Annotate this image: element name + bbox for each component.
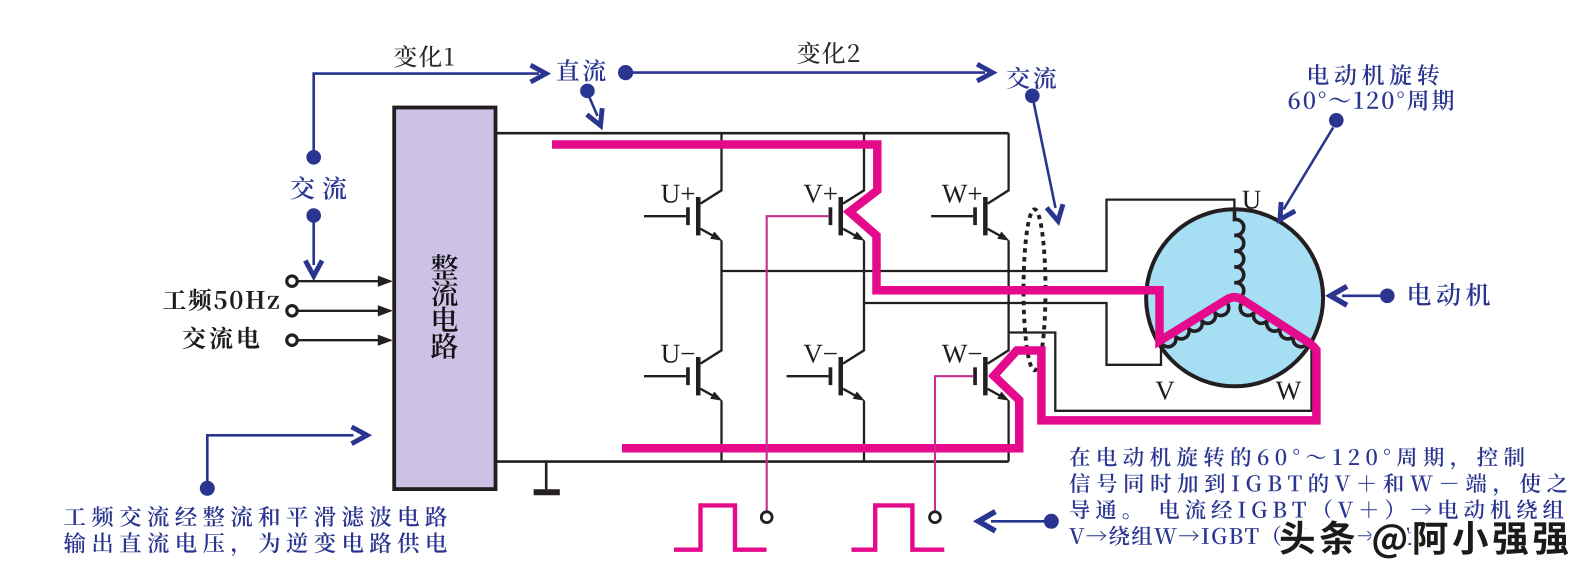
wire: short arrow from 直流 node to DC bus bbox=[590, 98, 598, 117]
wire: V branch vertical bbox=[863, 133, 865, 190]
node dot after 直流 bbox=[618, 65, 633, 80]
node dot below 交流 left bbox=[306, 208, 321, 223]
label 变化1 bbox=[394, 45, 454, 67]
label 工频50Hz bbox=[163, 289, 279, 312]
label 变化2 bbox=[797, 42, 859, 64]
wire: W branch vertical bbox=[1007, 133, 1009, 190]
wire: arrow from 电动机 to motor bbox=[1342, 294, 1380, 297]
gate terminal V+ bbox=[761, 512, 772, 523]
label W− bbox=[942, 345, 981, 363]
wire: V+ gate drive (pink) bbox=[767, 216, 829, 511]
wire: gate lead U+ bbox=[644, 215, 686, 217]
cable bundle ellipse (dotted) bbox=[1024, 209, 1046, 370]
wire: gate lead U− bbox=[644, 375, 686, 377]
wire: arrow from 电动机旋转 to motor bbox=[1284, 128, 1334, 210]
node dot bottom-center annotation bbox=[1044, 514, 1059, 529]
label 电动机旋转 bbox=[1309, 64, 1439, 86]
AC input terminal 1 bbox=[287, 276, 297, 286]
transistor IGBT U+ bbox=[686, 190, 722, 241]
label 整 (rectifier) bbox=[431, 254, 458, 279]
label 交流 left bbox=[291, 176, 346, 200]
label W+ bbox=[942, 185, 981, 203]
wire: gate lead W+ bbox=[931, 215, 973, 217]
wire: AC input line 3 into rectifier bbox=[298, 339, 379, 341]
wire: U phase output to motor bbox=[722, 200, 1235, 271]
gate terminal W- bbox=[930, 512, 941, 523]
wire: 直流 to 变化2 arrow bbox=[633, 71, 985, 74]
arrowhead into 直流 bbox=[531, 65, 546, 82]
label 60-120 周期 bbox=[1289, 90, 1454, 111]
AC input terminal 3 bbox=[287, 335, 297, 345]
arrowhead into 交流 (top right) bbox=[977, 64, 992, 81]
wire: DC- bottom bus bbox=[496, 460, 1009, 463]
node dot bottom-left annotation bbox=[200, 481, 215, 496]
wire: W- gate drive (pink) bbox=[935, 376, 974, 510]
wire: AC input line 1 into rectifier bbox=[298, 280, 379, 282]
wire: gate lead V− bbox=[787, 375, 829, 377]
label U− bbox=[661, 345, 694, 363]
wire: arrow from 交流 node down to output cable bbox=[1034, 103, 1056, 208]
label 直流 bbox=[557, 59, 606, 82]
label 交流 top right bbox=[1007, 67, 1056, 90]
winding V bbox=[1161, 298, 1235, 347]
node dot 电动机旋转 bbox=[1329, 113, 1344, 128]
note line 4 bottom-right bbox=[1069, 526, 1442, 546]
note line 3 bottom-right bbox=[1070, 499, 1564, 519]
wire: blue AC-source elbow to 变化1 arrow bbox=[314, 74, 539, 151]
node dot 电动机 bbox=[1380, 289, 1395, 304]
ground bbox=[545, 462, 548, 490]
label U (motor terminal) bbox=[1242, 191, 1260, 209]
AC input terminal 2 bbox=[287, 306, 297, 316]
note line 1 bottom-right bbox=[1070, 447, 1525, 470]
note line 2 bottom-left bbox=[64, 532, 447, 556]
label W (motor terminal) bbox=[1276, 382, 1301, 400]
winding W bbox=[1235, 298, 1309, 347]
node dot below 直流 bbox=[580, 84, 595, 99]
transistor IGBT V− bbox=[829, 350, 865, 401]
wire: arrow down to AC input terminal bbox=[312, 222, 315, 265]
note line 1 bottom-left bbox=[64, 506, 447, 527]
wire: V phase output to motor bbox=[864, 303, 1161, 365]
label V (motor terminal) bbox=[1156, 382, 1175, 400]
label U+ bbox=[661, 185, 694, 203]
label V+ bbox=[804, 185, 837, 203]
transistor IGBT U− bbox=[686, 350, 722, 401]
label 路 (rectifier) bbox=[431, 333, 458, 359]
transistor IGBT W+ bbox=[973, 190, 1009, 241]
label 交流电 bbox=[183, 327, 260, 350]
label 电动机 bbox=[1409, 283, 1490, 306]
wire: U branch vertical bbox=[720, 133, 722, 190]
note line 2 bottom-right bbox=[1070, 473, 1568, 496]
watermark 头条@阿小强强 bbox=[1280, 520, 1568, 558]
transistor IGBT W− bbox=[973, 350, 1009, 401]
pulse waveform 1 bbox=[674, 505, 767, 549]
rectifier block 整流电路 bbox=[394, 108, 495, 490]
wire: arrow to gate pulses bbox=[991, 520, 1044, 523]
label 流 (rectifier) bbox=[432, 280, 458, 306]
wire: DC+ top bus bbox=[496, 132, 1009, 135]
label 电 (rectifier) bbox=[434, 307, 458, 332]
wire: highlighted current path DC+ through V+ motor W- bbox=[552, 145, 1316, 449]
pulse waveform 2 bbox=[852, 505, 945, 549]
transistor IGBT V+ bbox=[829, 190, 865, 241]
node dot below 交流 top-right bbox=[1025, 89, 1040, 104]
wire: annotation arrow to rectifier bbox=[207, 435, 353, 481]
winding U bbox=[1235, 210, 1244, 299]
motor circle 电动机 bbox=[1146, 209, 1323, 386]
wire: AC input line 2 into rectifier bbox=[298, 310, 379, 312]
label V− bbox=[804, 345, 837, 363]
node dot on AC input elbow bbox=[306, 150, 321, 165]
wire: W phase output to motor bbox=[1009, 333, 1312, 411]
